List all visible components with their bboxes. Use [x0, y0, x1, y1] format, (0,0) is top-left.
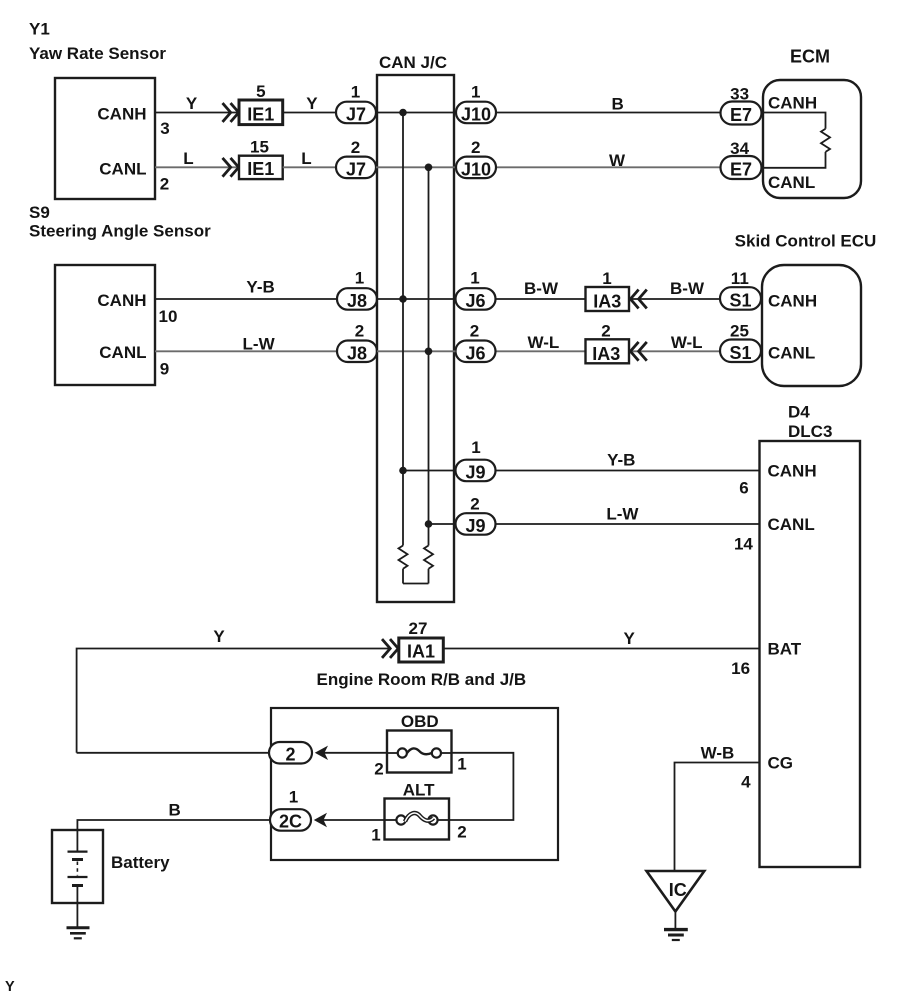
svg-text:Y: Y	[5, 979, 15, 995]
svg-text:J7: J7	[346, 160, 366, 180]
svg-text:IE1: IE1	[247, 159, 274, 179]
svg-text:2: 2	[355, 322, 364, 341]
fuse ALT (fusible link)	[385, 799, 450, 840]
wire J6 pin1 to IA3	[496, 298, 586, 300]
svg-text:Y1: Y1	[29, 20, 50, 39]
svg-text:E7: E7	[730, 105, 752, 125]
svg-text:Battery: Battery	[111, 853, 170, 872]
arrow chevrons out of IA3 row1	[630, 290, 646, 309]
wire left vertical to 2 connector	[77, 752, 269, 754]
svg-text:2: 2	[471, 138, 480, 157]
svg-text:25: 25	[730, 322, 749, 341]
svg-text:1: 1	[471, 83, 480, 102]
wire J8 pin2 to J6 pin2 through J/C	[377, 350, 456, 352]
connector J6 pin 2	[456, 341, 496, 364]
junction node row1	[399, 109, 407, 117]
wire IA3 to S1 pin11	[629, 298, 720, 300]
ground (battery)	[67, 928, 90, 939]
connector J6 pin 1	[456, 288, 496, 311]
svg-text:Y: Y	[213, 627, 225, 646]
svg-text:2: 2	[470, 495, 479, 514]
ECM internal terminating resistor loop	[763, 113, 826, 168]
svg-text:CANH: CANH	[768, 292, 817, 311]
svg-text:CANL: CANL	[99, 160, 146, 179]
svg-text:ALT: ALT	[403, 781, 435, 800]
svg-text:J8: J8	[347, 291, 367, 311]
fuse OBD	[387, 731, 452, 773]
connector IA3 row2	[586, 339, 630, 364]
Steering Angle Sensor box S9	[55, 265, 155, 385]
svg-text:9: 9	[160, 360, 169, 379]
wire J6 pin2 to IA3	[496, 350, 586, 352]
wire battery to ground	[76, 886, 78, 928]
wire J10 pin1 to E7 pin33	[496, 112, 721, 114]
wire steering CANH to J8	[155, 298, 337, 300]
svg-text:L: L	[301, 149, 311, 168]
svg-text:L: L	[183, 149, 193, 168]
svg-text:33: 33	[730, 85, 749, 104]
svg-text:J9: J9	[465, 463, 485, 483]
svg-text:W-B: W-B	[701, 744, 735, 763]
wire IA1 to DLC3 BAT	[444, 648, 760, 650]
svg-text:B-W: B-W	[670, 279, 705, 298]
wire IC to ground	[674, 912, 676, 929]
svg-text:L-W: L-W	[606, 505, 639, 524]
svg-text:D4: D4	[788, 403, 810, 422]
connector 2C	[270, 809, 311, 831]
svg-text:1: 1	[355, 269, 364, 288]
Skid Control ECU box	[762, 265, 861, 386]
connector IA1	[399, 638, 444, 662]
connector J10 pin 1	[456, 102, 496, 125]
svg-text:Y-B: Y-B	[607, 451, 635, 470]
svg-text:S1: S1	[729, 291, 751, 311]
svg-text:2: 2	[470, 322, 479, 341]
svg-text:1: 1	[457, 755, 466, 774]
wire IE1 to J7 pin2	[283, 166, 336, 168]
svg-text:1: 1	[371, 826, 380, 845]
svg-text:B: B	[611, 95, 623, 114]
connector S1 pin 25	[720, 340, 761, 363]
wire IA3 to S1 pin25	[629, 350, 720, 352]
connector J10 pin 2	[456, 157, 496, 180]
arrow solid into connector 2	[315, 746, 328, 760]
svg-text:J10: J10	[461, 160, 491, 180]
wire ALT to 2C	[321, 819, 385, 821]
arrow chevrons into IA1	[382, 639, 398, 658]
connector J8 pin 2	[337, 341, 377, 364]
svg-text:J6: J6	[465, 291, 485, 311]
junction node J9 pin1	[399, 467, 407, 475]
svg-text:W-L: W-L	[528, 333, 560, 352]
svg-text:2: 2	[351, 138, 360, 157]
junction node row2	[425, 164, 433, 172]
svg-text:2: 2	[457, 823, 466, 842]
wire OBD to ALT (right loop)	[449, 753, 513, 820]
connector J7 pin 2	[336, 157, 376, 180]
wire IE1 to J7 pin1	[283, 112, 336, 114]
svg-text:2: 2	[285, 744, 295, 764]
svg-text:DLC3: DLC3	[788, 422, 832, 441]
terminating resistor left in J/C	[399, 546, 408, 584]
svg-text:Skid Control ECU: Skid Control ECU	[735, 232, 877, 251]
IC ground triangle	[647, 871, 705, 912]
svg-text:IA3: IA3	[592, 344, 620, 364]
Yaw Rate Sensor box Y1	[55, 78, 155, 199]
connector E7 pin 34	[721, 156, 762, 180]
svg-text:IA1: IA1	[407, 642, 435, 662]
svg-text:5: 5	[256, 82, 265, 101]
svg-text:ECM: ECM	[790, 47, 830, 67]
svg-text:2: 2	[160, 175, 169, 194]
svg-text:CANH: CANH	[97, 291, 146, 310]
junction node row4	[425, 348, 433, 356]
connector J9 pin 1	[456, 460, 496, 483]
svg-text:1: 1	[471, 438, 480, 457]
svg-text:J8: J8	[347, 343, 367, 363]
connector IE1 row1	[239, 100, 283, 125]
wire J7 pin1 to J10 pin1 through J/C	[376, 112, 456, 114]
svg-text:1: 1	[351, 83, 360, 102]
svg-text:Engine Room R/B and J/B: Engine Room R/B and J/B	[317, 670, 527, 689]
CANL bus line (right)	[428, 167, 430, 545]
connector J7 pin 1	[336, 102, 376, 125]
wire joining resistors	[403, 583, 429, 585]
battery cell plates	[68, 852, 88, 886]
wire BAT Y: left vertical and horizontal to IA1	[77, 649, 390, 753]
connector IE1 row2	[239, 156, 283, 179]
svg-text:10: 10	[159, 307, 178, 326]
svg-text:B: B	[168, 801, 180, 820]
svg-text:J10: J10	[461, 105, 491, 125]
svg-text:CANH: CANH	[97, 105, 146, 124]
DLC3 connector box D4	[760, 441, 861, 867]
svg-text:J9: J9	[465, 516, 485, 536]
connector IA3 row1	[586, 287, 630, 312]
wire J9 pin2 to DLC3 CANL	[496, 523, 760, 525]
svg-text:E7: E7	[730, 160, 752, 180]
wire bus to J9 pin1	[403, 470, 456, 472]
svg-text:4: 4	[741, 773, 751, 792]
svg-text:CANH: CANH	[768, 94, 817, 113]
svg-text:1: 1	[289, 788, 298, 807]
svg-text:2C: 2C	[279, 812, 302, 832]
junction node row3	[399, 295, 407, 303]
connector E7 pin 33	[721, 102, 762, 126]
svg-text:2: 2	[601, 322, 610, 341]
wire arrow to OBD fuse	[322, 752, 387, 754]
svg-text:34: 34	[730, 139, 749, 158]
wire bus to J9 pin2	[429, 523, 456, 525]
wire J8 pin1 to J6 pin1 through J/C	[377, 298, 456, 300]
svg-text:CANL: CANL	[99, 343, 146, 362]
wire J9 pin1 to DLC3 CANH	[496, 470, 760, 472]
connector S1 pin 11	[720, 287, 761, 310]
svg-text:Y: Y	[306, 94, 318, 113]
Engine Room R/B and J/B box	[271, 708, 558, 860]
svg-text:14: 14	[734, 535, 753, 554]
wire steering CANL to J8	[155, 350, 337, 352]
connector J9 pin 2	[456, 513, 496, 536]
svg-text:W-L: W-L	[671, 333, 703, 352]
svg-text:IC: IC	[669, 880, 687, 900]
svg-text:J6: J6	[465, 343, 485, 363]
svg-text:S9: S9	[29, 203, 50, 222]
svg-text:W: W	[609, 151, 626, 170]
CANH bus line (left)	[402, 113, 404, 546]
svg-text:Y: Y	[186, 94, 198, 113]
svg-text:J7: J7	[346, 105, 366, 125]
svg-text:CANH: CANH	[768, 462, 817, 481]
svg-text:27: 27	[409, 619, 428, 638]
terminating resistor right in J/C	[424, 546, 433, 584]
svg-text:IA3: IA3	[593, 292, 621, 312]
svg-text:Y: Y	[624, 629, 636, 648]
svg-text:2: 2	[374, 760, 383, 779]
svg-text:CANL: CANL	[768, 515, 815, 534]
svg-text:CANL: CANL	[768, 173, 815, 192]
ECM box	[763, 80, 861, 198]
svg-text:CAN J/C: CAN J/C	[379, 53, 447, 72]
svg-text:CG: CG	[768, 754, 794, 773]
svg-text:Yaw Rate Sensor: Yaw Rate Sensor	[29, 44, 166, 63]
battery box	[52, 830, 103, 903]
arrow chevrons into IE1 row1	[223, 103, 239, 122]
wire J7 pin2 to J10 pin2 through J/C	[376, 166, 456, 168]
svg-text:BAT: BAT	[768, 640, 802, 659]
resistor zigzag in ECM	[821, 129, 830, 152]
CAN J/C junction connector box	[377, 75, 454, 602]
svg-text:16: 16	[731, 659, 750, 678]
wire J10 pin2 to E7 pin34	[496, 166, 721, 168]
svg-text:1: 1	[470, 269, 479, 288]
svg-text:15: 15	[250, 138, 269, 157]
svg-text:S1: S1	[729, 343, 751, 363]
arrow chevrons out of IA3 row2	[630, 342, 646, 361]
arrow solid into connector 2C	[314, 813, 327, 827]
svg-text:OBD: OBD	[401, 712, 439, 731]
svg-text:3: 3	[160, 119, 169, 138]
wire yaw CANL to IE1 row2	[155, 166, 239, 168]
svg-text:L-W: L-W	[243, 335, 276, 354]
svg-text:1: 1	[602, 269, 611, 288]
ground (IC)	[664, 930, 688, 940]
wire yaw CANH to IE1	[155, 112, 239, 114]
wire battery B to 2C	[77, 820, 270, 851]
svg-text:Y-B: Y-B	[246, 278, 274, 297]
arrow chevrons into IE1 row2	[223, 158, 239, 177]
wire W-B from DLC3 CG	[675, 763, 760, 872]
connector 2 (engine room)	[269, 742, 312, 764]
svg-text:IE1: IE1	[247, 105, 274, 125]
junction node J9 pin2	[425, 520, 433, 528]
svg-text:Steering Angle Sensor: Steering Angle Sensor	[29, 222, 211, 241]
svg-text:6: 6	[739, 479, 748, 498]
svg-text:11: 11	[731, 269, 749, 288]
connector J8 pin 1	[337, 288, 377, 311]
svg-text:CANL: CANL	[768, 344, 815, 363]
svg-text:B-W: B-W	[524, 279, 559, 298]
